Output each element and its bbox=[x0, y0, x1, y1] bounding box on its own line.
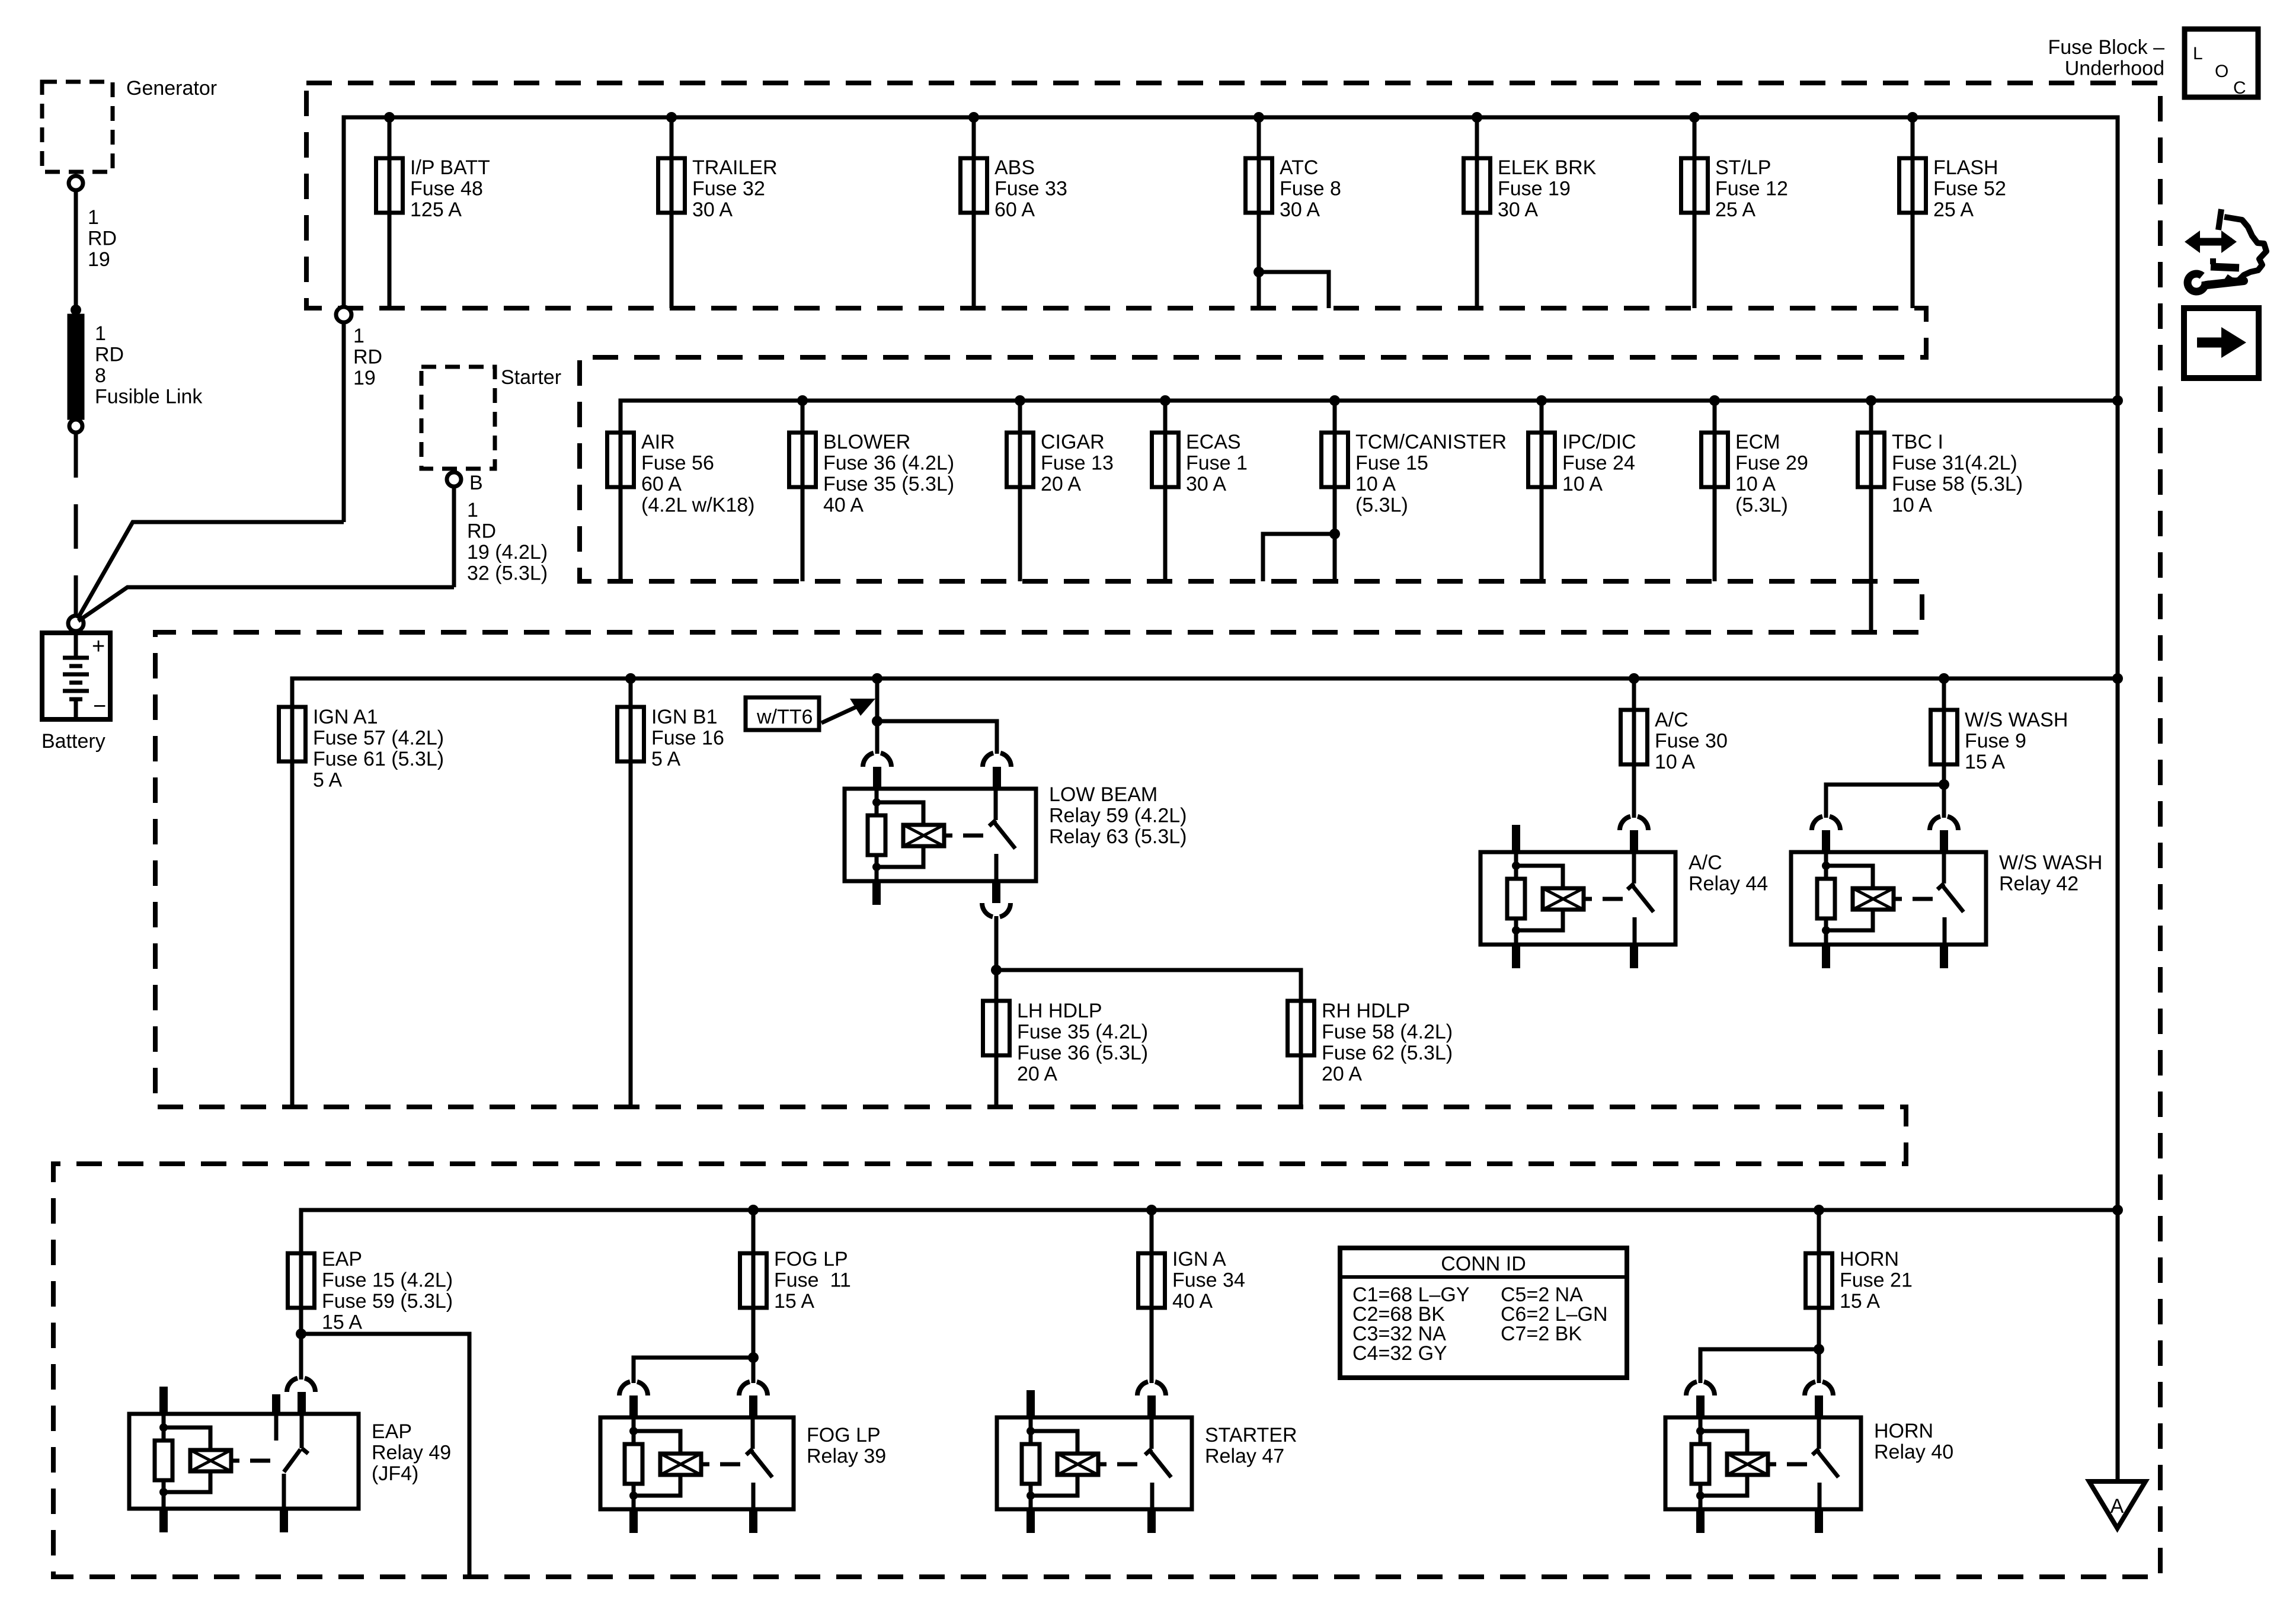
wire low beam switch feed bbox=[877, 721, 997, 754]
wire Fuse52 drop bbox=[1911, 117, 1915, 308]
svg-text:Fuse 62 (5.3L): Fuse 62 (5.3L) bbox=[1322, 1042, 1453, 1064]
svg-text:30 A: 30 A bbox=[1498, 199, 1538, 221]
svg-text:40 A: 40 A bbox=[823, 494, 864, 517]
fuse LHHDLP bbox=[983, 1001, 1010, 1055]
svg-text:10 A: 10 A bbox=[1355, 473, 1396, 495]
label IPC/DIC bbox=[1562, 431, 1636, 495]
relay LOW BEAM Relay 59/63 bbox=[845, 789, 1036, 881]
svg-text:25 A: 25 A bbox=[1715, 199, 1755, 221]
svg-text:(5.3L): (5.3L) bbox=[1735, 494, 1788, 517]
wire ECM drop bbox=[1713, 401, 1717, 581]
wire CIGAR drop bbox=[1018, 401, 1022, 581]
label FLASH bbox=[1933, 156, 2006, 221]
svg-text:32 (5.3L): 32 (5.3L) bbox=[467, 562, 548, 585]
pin AC coil out bbox=[1512, 945, 1520, 968]
w/TT6 callout box bbox=[746, 697, 819, 730]
label W/S WASH relay bbox=[1999, 852, 2102, 895]
svg-text:FOG LP: FOG LP bbox=[807, 1424, 881, 1446]
svg-text:30 A: 30 A bbox=[1186, 473, 1226, 495]
fuse IGNA1 bbox=[279, 707, 306, 761]
svg-text:BLOWER: BLOWER bbox=[823, 431, 910, 453]
svg-text:Fuse 31(4.2L): Fuse 31(4.2L) bbox=[1892, 452, 2017, 475]
svg-text:10 A: 10 A bbox=[1735, 473, 1776, 495]
svg-text:19 (4.2L): 19 (4.2L) bbox=[467, 541, 548, 564]
label LH HDLP bbox=[1017, 1000, 1148, 1086]
dashed wire fusible link to battery bbox=[74, 433, 78, 616]
node bus4 HORN bbox=[1814, 1205, 1824, 1215]
svg-text:Relay 47: Relay 47 bbox=[1205, 1445, 1284, 1468]
pin HORN coil out bbox=[1696, 1509, 1705, 1533]
fuse Fuse32 TRAILER bbox=[658, 158, 685, 213]
connector WS WASH coil bbox=[1812, 817, 1840, 830]
relay EAP Relay 49 bbox=[129, 1414, 359, 1509]
svg-text:IGN A1: IGN A1 bbox=[313, 706, 378, 728]
svg-text:I/P BATT: I/P BATT bbox=[410, 156, 490, 179]
svg-text:20 A: 20 A bbox=[1322, 1063, 1362, 1086]
generator dashed box bbox=[42, 82, 113, 172]
fusible link bbox=[68, 314, 84, 420]
connector FOG LP switch bbox=[739, 1382, 768, 1395]
svg-text:CONN ID: CONN ID bbox=[1441, 1253, 1526, 1275]
pin EAP coil out bbox=[159, 1509, 168, 1532]
label BLOWER bbox=[823, 431, 954, 517]
svg-text:Underhood: Underhood bbox=[2065, 57, 2164, 80]
svg-text:A/C: A/C bbox=[1655, 709, 1689, 731]
svg-text:Fuse 9: Fuse 9 bbox=[1965, 730, 2026, 753]
svg-text:Fuse 59 (5.3L): Fuse 59 (5.3L) bbox=[322, 1290, 453, 1313]
node ATC jog bbox=[1253, 267, 1264, 277]
wire LH HDLP drop bbox=[994, 970, 999, 1107]
pin STARTER coil stub bbox=[1027, 1390, 1035, 1417]
wire FOG LP coil branch bbox=[634, 1358, 753, 1383]
node bus1 Fuse12 bbox=[1689, 112, 1700, 123]
svg-text:HORN: HORN bbox=[1874, 1420, 1933, 1442]
LOC box bbox=[2185, 29, 2258, 98]
icon underhood service (arrow wrench hood) bbox=[2185, 209, 2266, 292]
label FOG LP fuse bbox=[774, 1248, 851, 1313]
svg-text:20 A: 20 A bbox=[1017, 1063, 1057, 1086]
wire EAP bypass right bbox=[301, 1334, 469, 1577]
CONN ID table bbox=[1340, 1248, 1627, 1378]
fuse WSWASH Fuse 9 bbox=[1931, 710, 1958, 764]
node bus1 Fuse19 bbox=[1472, 112, 1482, 123]
svg-text:10 A: 10 A bbox=[1562, 473, 1603, 495]
svg-text:Fuse 15 (4.2L): Fuse 15 (4.2L) bbox=[322, 1269, 453, 1292]
node bus4 IGN A bbox=[1146, 1205, 1157, 1215]
svg-text:Fuse 61 (5.3L): Fuse 61 (5.3L) bbox=[313, 748, 444, 770]
svg-text:w/TT6: w/TT6 bbox=[756, 706, 813, 728]
svg-text:15 A: 15 A bbox=[1965, 751, 2005, 773]
label Fuse Block - Underhood bbox=[2048, 36, 2164, 80]
svg-text:Fuse 52: Fuse 52 bbox=[1933, 178, 2006, 200]
svg-text:Fuse 11: Fuse 11 bbox=[774, 1269, 851, 1292]
pin FOG LP coil bbox=[629, 1395, 638, 1417]
svg-text:Relay 44: Relay 44 bbox=[1689, 873, 1768, 895]
fuse BLOWER bbox=[789, 433, 816, 487]
generator terminal bbox=[69, 176, 83, 190]
svg-text:IGN A: IGN A bbox=[1172, 1248, 1226, 1270]
fuse AIR bbox=[607, 433, 634, 487]
label ELEK BRK bbox=[1498, 156, 1597, 221]
pin EAP switch bbox=[298, 1392, 306, 1414]
svg-text:Fusible Link: Fusible Link bbox=[95, 386, 203, 408]
label I/P BATT bbox=[410, 156, 490, 221]
wire bus row4 bbox=[301, 1210, 2118, 1379]
node bus2 ECAS bbox=[1160, 395, 1171, 406]
wire battery to starter branch bbox=[78, 587, 454, 621]
pin HORN switch out bbox=[1815, 1509, 1823, 1533]
wire bus row2 bbox=[621, 401, 2118, 581]
wire Fuse48 drop bbox=[388, 117, 392, 308]
connector low beam coil bbox=[863, 753, 891, 767]
wire ECAS drop bbox=[1163, 401, 1168, 581]
svg-text:5 A: 5 A bbox=[313, 769, 342, 792]
svg-text:Fuse 48: Fuse 48 bbox=[410, 178, 483, 200]
label ECAS bbox=[1186, 431, 1248, 495]
svg-text:Relay 63 (5.3L): Relay 63 (5.3L) bbox=[1049, 825, 1187, 848]
svg-text:AIR: AIR bbox=[641, 431, 675, 453]
label RH HDLP bbox=[1322, 1000, 1453, 1086]
connector AC switch bbox=[1620, 817, 1648, 830]
label HORN fuse bbox=[1840, 1248, 1913, 1313]
svg-text:Generator: Generator bbox=[126, 77, 217, 100]
fuse AC Fuse 30 bbox=[1621, 710, 1648, 764]
connector HORN coil bbox=[1686, 1382, 1715, 1395]
pin STARTER switch bbox=[1147, 1395, 1156, 1417]
label TRAILER bbox=[692, 156, 778, 221]
node HORN split bbox=[1814, 1344, 1824, 1355]
fuse HORN Fuse 21 bbox=[1806, 1253, 1833, 1308]
fuse Fuse12 ST/LP bbox=[1681, 158, 1708, 213]
svg-text:LH HDLP: LH HDLP bbox=[1017, 1000, 1102, 1022]
pin EAP NC bbox=[272, 1394, 280, 1414]
wire TCMCANISTER drop bbox=[1333, 401, 1337, 581]
node bus4 right bbox=[2112, 1205, 2123, 1215]
wire terminal down bbox=[342, 322, 346, 522]
svg-text:ECM: ECM bbox=[1735, 431, 1780, 453]
svg-text:TCM/CANISTER: TCM/CANISTER bbox=[1355, 431, 1507, 453]
svg-text:LOW BEAM: LOW BEAM bbox=[1049, 783, 1157, 806]
fuse CIGAR bbox=[1007, 433, 1034, 487]
relay STARTER Relay 47 bbox=[997, 1417, 1192, 1509]
fuse ECAS bbox=[1152, 433, 1179, 487]
fuse TBCI bbox=[1858, 433, 1885, 487]
label 1 RD 8 Fusible Link bbox=[95, 322, 203, 408]
label HORN relay bbox=[1874, 1420, 1953, 1464]
svg-text:15 A: 15 A bbox=[1840, 1290, 1880, 1313]
svg-text:Fuse 56: Fuse 56 bbox=[641, 452, 714, 475]
svg-text:Relay 42: Relay 42 bbox=[1999, 873, 2078, 895]
svg-text:EAP: EAP bbox=[372, 1420, 412, 1443]
svg-text:Fuse 13: Fuse 13 bbox=[1041, 452, 1114, 475]
svg-text:Fuse 15: Fuse 15 bbox=[1355, 452, 1428, 475]
svg-text:Fuse 35 (4.2L): Fuse 35 (4.2L) bbox=[1017, 1021, 1148, 1044]
svg-text:Fuse 19: Fuse 19 bbox=[1498, 178, 1571, 200]
node EAP split bbox=[296, 1329, 306, 1339]
svg-text:Fuse 1: Fuse 1 bbox=[1186, 452, 1248, 475]
svg-text:Fuse 58 (5.3L): Fuse 58 (5.3L) bbox=[1892, 473, 2023, 495]
node bus3 right bbox=[2112, 673, 2123, 684]
wire Fuse12 drop bbox=[1693, 117, 1697, 308]
connector STARTER switch bbox=[1137, 1382, 1166, 1395]
wire starter B down bbox=[452, 486, 456, 587]
svg-text:A: A bbox=[2110, 1495, 2124, 1518]
svg-text:19: 19 bbox=[353, 367, 376, 389]
w/TT6 arrow bbox=[821, 699, 875, 723]
wire WS WASH drop bbox=[1942, 678, 1946, 818]
node bus3 WS WASH bbox=[1939, 673, 1949, 684]
svg-text:Fuse 32: Fuse 32 bbox=[692, 178, 765, 200]
node FOG LP split bbox=[748, 1352, 759, 1363]
label 1 RD 19 32 starter wire bbox=[467, 499, 548, 585]
node bus1 Fuse8 bbox=[1253, 112, 1264, 123]
node bus1 Fuse33 bbox=[968, 112, 979, 123]
svg-text:Fuse 16: Fuse 16 bbox=[651, 727, 724, 750]
svg-text:(5.3L): (5.3L) bbox=[1355, 494, 1408, 517]
node fusible link top bbox=[71, 305, 81, 315]
wire IPCDIC drop bbox=[1540, 401, 1544, 581]
pin FOG LP coil out bbox=[629, 1509, 638, 1533]
svg-text:60 A: 60 A bbox=[994, 199, 1035, 221]
svg-text:1: 1 bbox=[467, 499, 478, 521]
label ST/LP bbox=[1715, 156, 1788, 221]
starter terminal B bbox=[447, 472, 461, 486]
fuse Fuse33 ABS bbox=[961, 158, 987, 213]
svg-text:HORN: HORN bbox=[1840, 1248, 1899, 1270]
svg-text:RD: RD bbox=[95, 344, 124, 366]
pin AC coil stub bbox=[1512, 825, 1520, 852]
svg-text:30 A: 30 A bbox=[692, 199, 733, 221]
svg-text:1: 1 bbox=[88, 206, 99, 229]
wire low beam coil feed bbox=[875, 678, 880, 754]
pin WS WASH coil bbox=[1822, 830, 1830, 852]
wire ATC jog bbox=[1259, 272, 1329, 308]
label CIGAR bbox=[1041, 431, 1114, 495]
fuse IGNB1 bbox=[618, 707, 644, 761]
wire Fuse32 drop bbox=[670, 117, 674, 308]
svg-text:15 A: 15 A bbox=[774, 1290, 814, 1313]
svg-text:FLASH: FLASH bbox=[1933, 156, 1998, 179]
svg-text:C7=2 BK: C7=2 BK bbox=[1501, 1323, 1582, 1345]
relay HORN Relay 40 bbox=[1665, 1417, 1861, 1509]
svg-text:5 A: 5 A bbox=[651, 748, 680, 770]
fuse TCMCANISTER bbox=[1322, 433, 1348, 487]
svg-text:40 A: 40 A bbox=[1172, 1290, 1213, 1313]
svg-text:Fuse 33: Fuse 33 bbox=[994, 178, 1067, 200]
node bus2 TBCI bbox=[1866, 395, 1876, 406]
label IGN A1 bbox=[313, 706, 444, 792]
svg-text:Fuse 36 (5.3L): Fuse 36 (5.3L) bbox=[1017, 1042, 1148, 1064]
fuse Fuse8 ATC bbox=[1246, 158, 1272, 213]
connector low beam output bbox=[982, 903, 1011, 917]
fuse IPCDIC bbox=[1528, 433, 1555, 487]
wire to RH HDLP bbox=[996, 970, 1301, 1107]
svg-text:RH HDLP: RH HDLP bbox=[1322, 1000, 1410, 1022]
svg-text:Fuse 8: Fuse 8 bbox=[1280, 178, 1341, 200]
node bus3 low beam feed bbox=[872, 673, 882, 684]
svg-text:Relay 40: Relay 40 bbox=[1874, 1441, 1953, 1464]
label EAP fuse bbox=[322, 1248, 453, 1334]
connector low beam switch bbox=[983, 753, 1011, 767]
svg-text:EAP: EAP bbox=[322, 1248, 362, 1270]
svg-text:Fuse 36 (4.2L): Fuse 36 (4.2L) bbox=[823, 452, 954, 475]
off-page connector A bbox=[2089, 1481, 2145, 1528]
node TCM jog bbox=[1329, 529, 1340, 539]
pin EAP coil stub bbox=[159, 1387, 168, 1414]
svg-text:30 A: 30 A bbox=[1280, 199, 1320, 221]
fuse IGNA Fuse 34 bbox=[1139, 1253, 1165, 1308]
fuse EAP bbox=[288, 1253, 315, 1308]
label EAP relay bbox=[372, 1420, 451, 1485]
connector EAP switch bbox=[287, 1378, 315, 1392]
node hdlp split bbox=[991, 965, 1002, 975]
svg-text:IPC/DIC: IPC/DIC bbox=[1562, 431, 1636, 453]
label ATC bbox=[1280, 156, 1341, 221]
label IGN A fuse bbox=[1172, 1248, 1245, 1313]
fuse RHHDLP bbox=[1288, 1001, 1315, 1055]
svg-text:W/S WASH: W/S WASH bbox=[1999, 852, 2102, 874]
svg-text:Fuse 30: Fuse 30 bbox=[1655, 730, 1728, 753]
svg-text:ABS: ABS bbox=[994, 156, 1035, 179]
svg-text:Fuse 29: Fuse 29 bbox=[1735, 452, 1808, 475]
svg-text:Relay 59 (4.2L): Relay 59 (4.2L) bbox=[1049, 805, 1187, 827]
node bus1 Fuse48 bbox=[384, 112, 395, 123]
fuse Fuse48 I/P BATT bbox=[376, 158, 403, 213]
node bus2 TCMCANISTER bbox=[1329, 395, 1340, 406]
pin STARTER coil out bbox=[1027, 1509, 1035, 1533]
node bus3 IGNB1 bbox=[625, 673, 636, 684]
svg-text:C4=32 GY: C4=32 GY bbox=[1352, 1342, 1447, 1365]
pin STARTER switch out bbox=[1147, 1509, 1156, 1533]
connector FOG LP coil bbox=[619, 1382, 648, 1395]
svg-text:B: B bbox=[469, 472, 483, 494]
fuse FOGLP Fuse 11 bbox=[740, 1253, 767, 1308]
fuse ECM bbox=[1702, 433, 1728, 487]
svg-text:Fuse 35 (5.3L): Fuse 35 (5.3L) bbox=[823, 473, 954, 495]
wire generator to fusible link bbox=[74, 190, 78, 310]
svg-text:Starter: Starter bbox=[501, 366, 561, 389]
pin low beam switch bbox=[993, 767, 1001, 789]
node bus3 AC bbox=[1629, 673, 1639, 684]
label TBC I bbox=[1892, 431, 2023, 517]
node bus2 ECM bbox=[1709, 395, 1720, 406]
wire Fuse19 drop bbox=[1475, 117, 1479, 308]
wire Fuse8 drop bbox=[1257, 117, 1261, 308]
connector HORN switch bbox=[1805, 1382, 1833, 1395]
wire IGN A drop bbox=[1150, 1210, 1154, 1383]
terminal below fuse block row1 bbox=[336, 307, 351, 322]
node bus1 Fuse32 bbox=[666, 112, 677, 123]
pin low beam switch out bbox=[992, 881, 1000, 903]
label A/C fuse bbox=[1655, 709, 1728, 773]
svg-text:RD: RD bbox=[467, 520, 496, 543]
node bus2 IPCDIC bbox=[1536, 395, 1547, 406]
label FOG LP relay bbox=[807, 1424, 886, 1468]
pin FOG LP switch out bbox=[749, 1509, 757, 1533]
relay FOG LP Relay 39 bbox=[600, 1417, 794, 1509]
battery positive terminal bbox=[68, 616, 84, 631]
wire low beam output bbox=[994, 916, 999, 970]
pin low beam coil bbox=[873, 767, 881, 789]
fuse Fuse52 FLASH bbox=[1900, 158, 1926, 213]
svg-text:8: 8 bbox=[95, 364, 106, 387]
svg-text:10 A: 10 A bbox=[1892, 494, 1932, 517]
svg-text:Battery: Battery bbox=[41, 730, 105, 753]
svg-text:+: + bbox=[92, 634, 105, 659]
wire Fuse33 drop bbox=[972, 117, 976, 308]
wire IGN B1 drop bbox=[629, 678, 633, 1107]
svg-text:Fuse Block –: Fuse Block – bbox=[2048, 36, 2164, 59]
label ABS bbox=[994, 156, 1067, 221]
wire TBCI drop bbox=[1869, 401, 1873, 632]
pin AC switch out bbox=[1630, 945, 1638, 968]
node bus2 BLOWER bbox=[797, 395, 808, 406]
node bus1 Fuse52 bbox=[1907, 112, 1918, 123]
wire TCM jog bbox=[1263, 534, 1335, 581]
label A/C relay bbox=[1689, 852, 1768, 895]
wire main feed bus row1 and right bus bbox=[344, 117, 2118, 1481]
label 1 RD 19 generator wire bbox=[88, 206, 117, 271]
wire HORN drop bbox=[1817, 1210, 1821, 1383]
wire AC drop bbox=[1632, 678, 1636, 818]
node bus4 FOG LP bbox=[748, 1205, 759, 1215]
pin WS WASH switch bbox=[1940, 830, 1948, 852]
svg-text:ECAS: ECAS bbox=[1186, 431, 1241, 453]
pin WS WASH coil out bbox=[1822, 945, 1830, 968]
svg-text:IGN B1: IGN B1 bbox=[651, 706, 717, 728]
svg-text:O: O bbox=[2215, 62, 2228, 81]
svg-text:CIGAR: CIGAR bbox=[1041, 431, 1105, 453]
starter dashed box bbox=[421, 367, 495, 469]
svg-text:W/S WASH: W/S WASH bbox=[1965, 709, 2068, 731]
svg-text:10 A: 10 A bbox=[1655, 751, 1695, 773]
wire BLOWER drop bbox=[801, 401, 805, 581]
svg-text:25 A: 25 A bbox=[1933, 199, 1974, 221]
wire FOG LP drop bbox=[752, 1210, 756, 1383]
svg-text:TRAILER: TRAILER bbox=[692, 156, 778, 179]
node bus2 CIGAR bbox=[1015, 395, 1025, 406]
svg-text:20 A: 20 A bbox=[1041, 473, 1081, 495]
connector WS WASH switch bbox=[1930, 817, 1958, 830]
svg-text:Fuse 58 (4.2L): Fuse 58 (4.2L) bbox=[1322, 1021, 1453, 1044]
relay AC Relay 44 bbox=[1480, 852, 1675, 945]
wire HORN coil branch bbox=[1700, 1349, 1819, 1383]
svg-text:C: C bbox=[2233, 78, 2246, 98]
svg-text:FOG LP: FOG LP bbox=[774, 1248, 848, 1270]
battery B+ bbox=[42, 633, 110, 719]
svg-text:125 A: 125 A bbox=[410, 199, 462, 221]
label STARTER relay bbox=[1205, 1424, 1297, 1468]
label LOW BEAM relay bbox=[1049, 783, 1187, 848]
svg-text:Relay 39: Relay 39 bbox=[807, 1445, 886, 1468]
relay WS WASH Relay 42 bbox=[1791, 852, 1986, 945]
svg-text:Fuse 57 (4.2L): Fuse 57 (4.2L) bbox=[313, 727, 444, 750]
label TCM/CANISTER bbox=[1355, 431, 1507, 517]
wire battery to generator branch bbox=[78, 522, 344, 619]
svg-text:−: − bbox=[93, 694, 106, 719]
svg-text:ST/LP: ST/LP bbox=[1715, 156, 1771, 179]
svg-text:Relay 49: Relay 49 bbox=[372, 1442, 451, 1464]
svg-text:RD: RD bbox=[353, 346, 382, 369]
svg-text:STARTER: STARTER bbox=[1205, 1424, 1297, 1446]
icon arrow in box bbox=[2184, 308, 2259, 378]
fusible link terminal bbox=[69, 420, 82, 433]
svg-text:TBC I: TBC I bbox=[1892, 431, 1943, 453]
svg-text:ATC: ATC bbox=[1280, 156, 1318, 179]
svg-text:Fuse 24: Fuse 24 bbox=[1562, 452, 1635, 475]
svg-text:L: L bbox=[2193, 44, 2203, 63]
label ECM bbox=[1735, 431, 1808, 517]
